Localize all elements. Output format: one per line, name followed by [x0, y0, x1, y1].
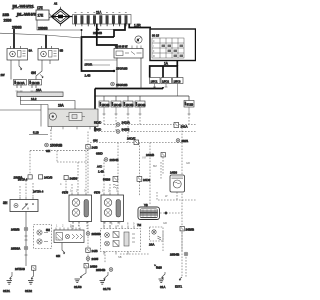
svg-text:26A: 26A: [149, 243, 154, 247]
dashed verticals lower mid: [104, 222, 118, 228]
svg-text:24D8: 24D8: [143, 178, 151, 182]
crimp on row131: [116, 128, 129, 134]
crimp 23B8B second on x88: [86, 257, 98, 261]
svg-text:31/58: 31/58: [74, 285, 82, 289]
svg-text:1/5C3: 1/5C3: [174, 79, 181, 83]
junction crimp symbol 15GR8B on rail: [111, 82, 128, 87]
crimp 23B4B bottom mid: [96, 268, 113, 272]
dashed vertical 189: [188, 114, 190, 125]
connector box 15C2A: [161, 78, 172, 88]
thick feed wire to horn H1: [13, 29, 15, 49]
svg-text:2W: 2W: [1, 73, 5, 77]
svg-text:BL-WH/31: BL-WH/31: [17, 12, 39, 16]
connector 141A right: [174, 123, 188, 129]
junction dot at 81.5,30: [81, 29, 83, 31]
wire arrow 23B8B to staircase: [96, 29, 115, 31]
connector 54B/B: [103, 177, 118, 189]
svg-text:24/B: 24/B: [92, 146, 98, 150]
connector 24/B lower: [86, 248, 98, 253]
svg-text:SB: SB: [118, 255, 122, 259]
tail lamp unit left 6T: [69, 193, 92, 224]
junction dot at 114,71: [113, 70, 115, 72]
connector box 15C3B: [99, 101, 110, 114]
svg-text:14B8: 14B8: [170, 171, 177, 175]
svg-text:V.8: V.8: [142, 156, 146, 160]
svg-text:N: N: [137, 38, 139, 42]
svg-text:15C3B: 15C3B: [102, 103, 110, 107]
ground drop G5: [159, 272, 166, 289]
wire relay pin right down to rail: [140, 58, 142, 89]
ignition switch box 1A: [150, 29, 196, 61]
svg-text:8B: 8B: [60, 49, 64, 53]
connector box 15C3A: [173, 78, 184, 97]
dashed heater links: [157, 192, 196, 213]
svg-text:31A: 31A: [160, 285, 165, 289]
ignition position table: [152, 38, 184, 58]
connector 24T/A8 bottom left: [15, 266, 36, 271]
svg-text:14.2: 14.2: [31, 97, 37, 101]
svg-text:GN: GN: [93, 139, 98, 143]
connector 24B/B right low: [180, 227, 195, 232]
svg-text:GR: GR: [163, 221, 167, 225]
svg-text:30 15: 30 15: [152, 34, 159, 38]
crimp 23B8B on x88: [86, 232, 102, 236]
svg-text:23B8B: 23B8B: [92, 232, 102, 236]
svg-text:15C4B: 15C4B: [114, 103, 122, 107]
connector box 11C2B right: [29, 80, 42, 92]
svg-text:31/75: 31/75: [103, 287, 111, 291]
inline ticks on wire: [25, 236, 28, 255]
svg-text:1/5C1: 1/5C1: [151, 79, 158, 83]
heater core element 7M: [138, 207, 160, 220]
svg-text:17E: 17E: [37, 6, 43, 10]
headlight switch 3H: [10, 197, 38, 212]
wire diamond to fusebox: [70, 16, 73, 18]
svg-text:24/B8: 24/B8: [70, 176, 78, 180]
tail lamp unit right 6T2: [101, 193, 124, 224]
instrument cluster 19A gray box: [48, 109, 98, 127]
svg-text:GN: GN: [31, 71, 36, 75]
svg-text:15GR8B: 15GR8B: [116, 83, 128, 87]
svg-text:23B8B: 23B8B: [12, 26, 22, 30]
wire label BL-WH/31 upper arrow: [12, 7, 34, 10]
svg-text:23B8A: 23B8A: [11, 246, 21, 250]
svg-text:24T/A 4: 24T/A 4: [18, 178, 28, 182]
horn H2: [38, 46, 59, 60]
fuses inside strip: [74, 16, 127, 27]
connector box 15C1A: [150, 78, 161, 88]
svg-text:24D/A: 24D/A: [122, 121, 130, 125]
svg-text:GN: GN: [46, 149, 50, 153]
arrow 8M8 bottom right: [154, 265, 162, 270]
svg-text:5C2B: 5C2B: [187, 103, 194, 107]
svg-text:BN/D: BN/D: [94, 128, 102, 132]
dashed switch feeds: [20, 181, 33, 197]
crimp 23B8A left: [11, 246, 28, 250]
svg-text:15A: 15A: [36, 88, 41, 92]
connector box 17E: [36, 6, 49, 20]
svg-text:15GR8B: 15GR8B: [50, 143, 62, 147]
svg-text:23B4B: 23B4B: [110, 158, 119, 162]
svg-text:8M: 8M: [153, 164, 157, 168]
svg-text:6T/6: 6T/6: [94, 191, 100, 195]
battery/junction diamond symbol: [51, 7, 70, 26]
horn H1 ground wire with GN arrow: [19, 60, 44, 78]
svg-text:24D/B: 24D/B: [44, 176, 52, 180]
thick feed wire from fuse to relay K1: [97, 24, 117, 49]
svg-text:3H: 3H: [3, 201, 8, 205]
svg-text:6T/5: 6T/5: [62, 191, 68, 195]
svg-text:19A: 19A: [58, 104, 65, 108]
svg-text:7M: 7M: [137, 223, 142, 227]
svg-text:GR: GR: [186, 161, 190, 165]
svg-text:III: III: [153, 55, 155, 58]
svg-text:24B/B: 24B/B: [146, 153, 154, 157]
svg-text:1.5R: 1.5R: [134, 24, 141, 28]
svg-text:5H: 5H: [46, 228, 50, 232]
wire H1 to connector 11C: [10, 60, 12, 80]
svg-text:8M/1: 8M/1: [182, 139, 189, 143]
connector row drops from rail: [104, 96, 140, 101]
svg-text:24B/B: 24B/B: [11, 227, 20, 231]
thick bus under ignition box: [150, 66, 178, 78]
wire label BL-WH/31 lower arrow: [16, 15, 37, 18]
wire strip down-right to cluster: [21, 97, 76, 110]
crimp 24B/B left: [11, 227, 28, 231]
wire H2 to connector 11C: [36, 60, 42, 80]
svg-text:24/B: 24/B: [92, 249, 98, 253]
wire from left edge y110: [0, 105, 41, 127]
thick wire from ignition box down: [176, 61, 178, 67]
thin wire y33 sloping to junction: [0, 33, 82, 38]
dashed vertical 182 long: [181, 125, 183, 278]
wire pin to rail from 15C1: [154, 87, 156, 89]
dashed feeds to marker comps: [72, 151, 86, 193]
ground drop G3: [74, 269, 86, 290]
svg-text:RD/D: RD/D: [94, 121, 102, 125]
svg-text:2405: 2405: [92, 257, 99, 261]
svg-text:GN: GN: [56, 254, 60, 258]
ground E371 bottom right: [175, 277, 182, 289]
connector 24B9 end: [84, 264, 98, 269]
label 24B/B top right: [146, 153, 165, 158]
junction dot on dashed y213: [164, 212, 167, 215]
ground drop G2: [25, 271, 34, 294]
park lamp dashed box left: [34, 225, 52, 249]
wire relay pin to junction: [116, 58, 118, 61]
crimp 8M/1 right: [176, 139, 188, 143]
dashed row y162: [57, 151, 88, 162]
svg-text:BL-WH/31: BL-WH/31: [13, 4, 35, 8]
dashed vertical 66: [65, 181, 67, 192]
cluster bottom pins: [52, 127, 91, 130]
connector row 2W5A labels: [14, 175, 78, 181]
wire 5.1B lower left: [29, 134, 48, 136]
svg-text:E371: E371: [175, 285, 182, 289]
crimp 23B4B mid: [97, 158, 119, 174]
thick feed wire to horn H2: [45, 35, 47, 49]
svg-text:GN/D: GN/D: [96, 152, 103, 156]
connector box 15C4B: [111, 101, 122, 114]
svg-text:23B8: 23B8: [4, 19, 12, 23]
wire horizontal y30 to junction: [37, 20, 82, 37]
table cell marks: [162, 45, 184, 58]
horn H1: [7, 46, 28, 60]
dashed row 24D/E: [90, 114, 182, 143]
unit ground wire with GN arrow: [56, 243, 65, 259]
connector 24/B on x88: [86, 145, 98, 150]
lamp dashed box right 26A: [150, 227, 164, 241]
svg-text:23B: 23B: [3, 13, 10, 17]
relay circle symbol N: [135, 36, 142, 43]
svg-text:17E: 17E: [38, 14, 44, 18]
svg-text:34/2B: 34/2B: [122, 128, 130, 132]
thick wire fuse right to main rail 1.5R: [129, 24, 151, 28]
thick vertical feed through cluster: [94, 89, 96, 132]
connector 24D/E: [93, 137, 139, 145]
fuse box strip 11A: [73, 11, 132, 25]
wire into cluster top: [41, 105, 48, 110]
dashed row BN/D: [95, 114, 196, 132]
heater grid element upper 14B: [170, 175, 185, 192]
dashed harness wires: [20, 114, 196, 277]
connector box 15C5B: [123, 101, 134, 114]
main thick rail y90: [95, 87, 163, 89]
svg-text:23B4B: 23B4B: [96, 268, 106, 272]
svg-text:5.1B: 5.1B: [33, 131, 39, 135]
switch ground wire: [25, 212, 27, 267]
svg-text:A/C: A/C: [97, 165, 103, 169]
dashed row 15GR8B mid-left: [30, 129, 88, 174]
horn H2 ground wire: [49, 60, 51, 64]
svg-text:54B8: 54B8: [103, 177, 111, 181]
connector strip 16A: [17, 88, 63, 97]
crimp 15GR8B lower: [45, 143, 63, 153]
thin wires relay to left: [84, 60, 117, 65]
svg-text:15GR: 15GR: [85, 63, 93, 67]
svg-text:11C2B: 11C2B: [32, 81, 40, 85]
svg-text:V8: V8: [144, 203, 148, 207]
svg-text:141A: 141A: [181, 124, 188, 128]
svg-text:24D/E: 24D/E: [127, 137, 135, 141]
dashed vertical 140: [139, 114, 141, 125]
crimp 24D/A: [94, 121, 130, 127]
svg-text:A2: A2: [54, 2, 58, 6]
dashed vertical 88 long: [87, 132, 89, 265]
svg-text:31B1: 31B1: [3, 289, 10, 293]
svg-text:15C5B: 15C5B: [126, 103, 134, 107]
dashed v 133: [139, 143, 141, 197]
rear lamp dashed unit mid: [101, 226, 141, 255]
thin rail y97.5: [95, 96, 189, 101]
svg-text:11C2A: 11C2A: [17, 81, 25, 85]
wire strip step: [21, 101, 42, 105]
connector box 5C2B right: [184, 101, 194, 115]
svg-text:15C6B: 15C6B: [138, 103, 146, 107]
dashed row 24D/A: [104, 114, 196, 125]
svg-text:30 86 85 87: 30 86 85 87: [115, 46, 128, 49]
license lamp unit 5H: [54, 228, 84, 243]
svg-text:1/5C2: 1/5C2: [162, 79, 169, 83]
dashed right column 163: [150, 143, 163, 206]
svg-text:24T/A 4: 24T/A 4: [33, 190, 44, 194]
svg-text:1.4B: 1.4B: [85, 74, 91, 78]
svg-text:31B2: 31B2: [25, 289, 32, 293]
svg-text:8A: 8A: [29, 49, 33, 53]
connector box 15C6B: [135, 101, 146, 114]
svg-text:23B4B: 23B4B: [170, 252, 180, 256]
horn relay K1: [114, 46, 143, 59]
svg-text:1.4B: 1.4B: [98, 170, 104, 174]
thick staircase from fuse 125: [114, 24, 125, 38]
svg-text:24T/A8: 24T/A8: [15, 267, 25, 271]
wire from junction down to rail: [116, 60, 118, 89]
ground drop G4: [100, 272, 111, 291]
connector 24D8: [137, 177, 151, 183]
wire fan from box to diamond: [49, 13, 52, 18]
svg-text:24B/B: 24B/B: [186, 228, 195, 232]
svg-text:15GR8B: 15GR8B: [116, 67, 128, 71]
ground drop G1 bottom left: [3, 272, 12, 293]
svg-text:GN: GN: [70, 225, 74, 229]
connector box 11C2A left: [14, 80, 27, 92]
thick branch wire y37: [82, 37, 115, 71]
crimp 23B4B right low: [170, 252, 188, 256]
svg-text:8M8: 8M8: [156, 266, 162, 270]
